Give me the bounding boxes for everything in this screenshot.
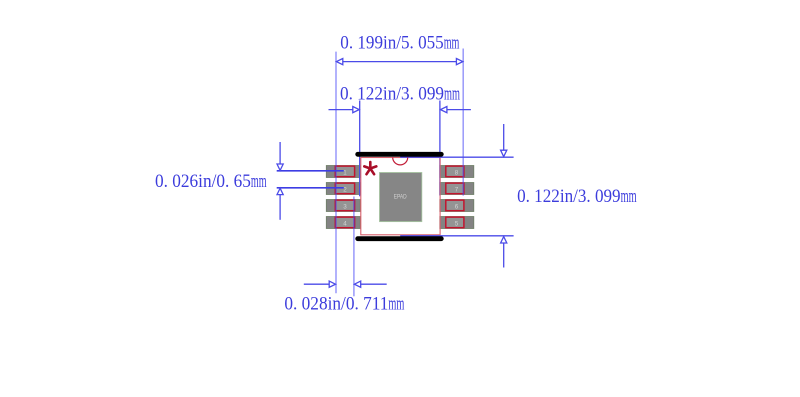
pin 6 terminal outline [446, 200, 464, 211]
pin 7 terminal outline [446, 183, 464, 194]
svg-text:3: 3 [343, 204, 347, 211]
pin 3 terminal outline [335, 200, 354, 211]
svg-text:EPAD: EPAD [394, 193, 407, 200]
pad 4 copper land [326, 217, 360, 229]
svg-text:6: 6 [455, 204, 459, 211]
extension line body left edge [359, 101, 361, 197]
pin 1 terminal outline [335, 166, 354, 177]
svg-text:0. 122in/3. 099mm: 0. 122in/3. 099mm [517, 186, 637, 207]
svg-text:8: 8 [455, 170, 459, 177]
svg-text:0. 026in/0. 65mm: 0. 026in/0. 65mm [155, 171, 267, 192]
pad 6 copper land [440, 200, 474, 212]
body height dimension right [501, 124, 507, 268]
pad 8 copper land [440, 166, 474, 178]
svg-text:0. 199in/5. 055mm: 0. 199in/5. 055mm [340, 33, 459, 54]
svg-text:5: 5 [455, 221, 459, 228]
body width dimension arrows [329, 107, 471, 113]
pin 2 terminal outline [335, 183, 354, 194]
body height connector bottom [400, 235, 513, 237]
terminal width dimension bottom [304, 281, 387, 287]
svg-text:1: 1 [343, 170, 347, 177]
extension line left overall width [335, 52, 337, 294]
pin1 index notch arc [393, 157, 408, 165]
pitch dim connector to pad 2 [277, 187, 344, 189]
pin 4 terminal outline [335, 217, 354, 228]
extension line body right edge [439, 101, 441, 196]
exposed pad EPAD [380, 173, 422, 222]
pad pitch dimension left [277, 142, 283, 220]
overall width dimension line [336, 59, 462, 65]
svg-text:4: 4 [343, 221, 347, 228]
body height connector top [400, 156, 513, 158]
svg-text:2: 2 [343, 187, 347, 194]
svg-text:7: 7 [455, 187, 459, 194]
pad 7 copper land [440, 183, 474, 195]
package body outline [361, 158, 440, 235]
pitch dim connector to pad 1 [277, 170, 344, 172]
extension line terminal width right [353, 197, 355, 297]
pin 5 terminal outline [446, 217, 464, 228]
pad 3 copper land [326, 200, 360, 212]
pin1 marker asterisk [364, 162, 376, 174]
svg-text:0. 122in/3. 099mm: 0. 122in/3. 099mm [340, 84, 460, 105]
pin 8 terminal outline [446, 166, 464, 177]
pad 2 copper land [326, 183, 360, 195]
pad 5 copper land [440, 217, 474, 229]
svg-text:0. 028in/0. 711mm: 0. 028in/0. 711mm [284, 293, 404, 314]
extension line right overall width [462, 49, 464, 196]
pad 1 copper land [326, 166, 360, 178]
bottom courtyard bar [358, 236, 442, 241]
top courtyard bar [358, 152, 442, 157]
